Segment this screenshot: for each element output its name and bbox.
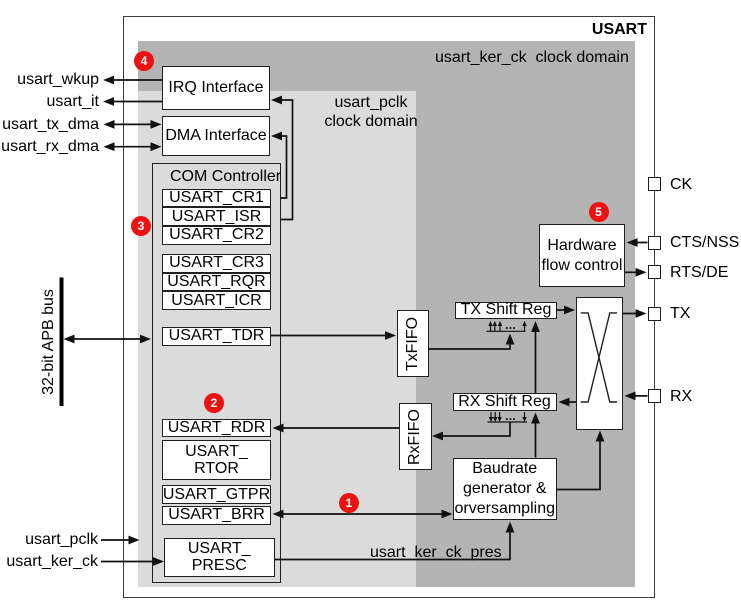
- left pin label usart_rx_dma: [0, 139, 99, 155]
- arrowhead into RTS pin: [636, 268, 647, 277]
- wire COM to IRQ feedback: [274, 100, 293, 220]
- RxFIFO block: [399, 403, 432, 470]
- TX/RX switch block: [576, 297, 623, 430]
- wire RX pin to switch: [628, 395, 648, 397]
- arrowhead into TX shift reg bottom: [531, 321, 540, 332]
- arrowhead into TxFIFO: [385, 331, 396, 340]
- arrowhead into RX shift reg bottom: [531, 413, 540, 424]
- register USART_TDR: [162, 327, 271, 346]
- register USART_RDR: [162, 419, 271, 438]
- wire DMA to usart_tx_dma: [107, 123, 158, 125]
- wire IRQ to usart_it: [106, 101, 162, 103]
- wire baudrate to RX shift reg: [535, 416, 537, 458]
- arrowhead usart_tx_dma right: [151, 120, 162, 129]
- svg-text:...: ...: [505, 317, 516, 332]
- TX shift reg parallel load arrows: [487, 323, 526, 331]
- register USART_ICR: [162, 291, 271, 310]
- pin CK: [648, 177, 662, 191]
- arrowhead APB left: [64, 335, 75, 344]
- arrowhead usart_ker_ck: [153, 557, 164, 566]
- arrowhead into TX pin: [636, 309, 647, 318]
- label usart_ker_ck clock domain: [435, 50, 629, 66]
- svg-text:...: ...: [505, 408, 516, 423]
- arrowhead usart_pclk: [129, 536, 140, 545]
- label usart_pclk clock domain: [296, 94, 446, 131]
- wire baudrate to TX shift reg: [535, 325, 537, 393]
- usart_ker_ck clock domain region: [138, 41, 635, 587]
- pin RTS/DE: [648, 265, 662, 279]
- left pin label usart_it: [0, 94, 99, 110]
- RX Shift Reg block: [453, 393, 557, 411]
- left pin label usart_pclk: [0, 532, 98, 548]
- arrowhead into switch bottom: [596, 431, 605, 442]
- 32-bit APB bus bar: [60, 278, 64, 407]
- wire usart_ker_ck input: [101, 561, 160, 563]
- 32-bit APB bus rotated label: [41, 287, 57, 397]
- Hardware flow control block: [539, 224, 625, 287]
- wire IRQ to usart_wkup: [106, 79, 162, 81]
- arrowhead RX pin into switch: [625, 392, 636, 401]
- arrowhead feedback into IRQ: [271, 96, 282, 105]
- usart_pclk clock domain region: [138, 91, 416, 588]
- TX Shift Reg block: [455, 302, 557, 320]
- register USART_RQR: [162, 273, 271, 292]
- callout circle 2: [204, 393, 224, 413]
- wire DMA to usart_rx_dma: [107, 146, 158, 148]
- wire switch to TX pin: [623, 313, 644, 315]
- Baudrate generator & orversampling block: [453, 458, 557, 520]
- USART outer block border: [123, 16, 655, 598]
- wire TxFIFO to TX shift reg load: [429, 338, 510, 349]
- callout circle 4: [134, 51, 154, 71]
- arrowhead BRR left: [273, 510, 284, 519]
- arrowhead TX shift into switch: [564, 306, 575, 315]
- left pin label usart_tx_dma: [0, 117, 99, 133]
- RX shift reg parallel unload arrows: [488, 412, 528, 422]
- register USART_ISR: [162, 207, 271, 226]
- wire TX shift reg to switch: [557, 309, 572, 311]
- wire RxFIFO to RDR: [276, 427, 399, 429]
- register USART_PRESC: [164, 538, 276, 578]
- arrowhead TxFIFO load up: [506, 334, 515, 345]
- register USART_GTPR: [162, 485, 271, 504]
- arrowhead usart_rx_dma left: [104, 142, 115, 151]
- wire RX shift reg to RxFIFO: [436, 422, 510, 436]
- pin CTS/NSS: [648, 236, 662, 250]
- arrowhead usart_wkup: [103, 76, 114, 85]
- wire switch to RX shift reg: [561, 401, 576, 403]
- arrowhead feedback into DMA: [271, 132, 282, 141]
- wire CTS pin to hardware flow control: [629, 242, 648, 244]
- wire BRR to baudrate generator: [276, 513, 449, 515]
- DMA Interface block: [162, 116, 270, 156]
- arrowhead APB right: [140, 335, 151, 344]
- wire PRESC to baudrate generator usart_ker_ck_pres: [275, 525, 510, 560]
- arrowhead into baudrate left: [442, 510, 453, 519]
- arrowhead usart_tx_dma left: [104, 120, 115, 129]
- switch cross glyph: [581, 313, 617, 402]
- arrowhead into RxFIFO: [432, 432, 443, 441]
- label usart_ker_ck_pres: [370, 545, 502, 561]
- arrowhead into RDR: [273, 424, 284, 433]
- wire hardware flow control to RTS pin: [625, 271, 643, 273]
- TxFIFO block: [397, 310, 430, 377]
- register USART_CR1: [162, 189, 271, 208]
- pin RX: [648, 389, 662, 403]
- arrowhead into RX shift reg right: [559, 398, 570, 407]
- arrowhead into hardware flow control: [627, 238, 638, 247]
- callout circle 5: [589, 202, 609, 222]
- left pin label usart_wkup: [0, 72, 99, 88]
- IRQ Interface block: [162, 66, 270, 110]
- register USART_BRR: [162, 506, 271, 526]
- wire usart_pclk input: [101, 539, 135, 541]
- USART title: [560, 22, 647, 38]
- wire TDR to TxFIFO: [271, 335, 393, 337]
- callout circle 1: [339, 493, 359, 513]
- register USART_CR3: [162, 254, 271, 273]
- arrowhead ker_ck_pres up into baudrate: [506, 522, 515, 533]
- wire baudrate generator to switch: [557, 434, 601, 490]
- register USART_CR2: [162, 226, 271, 245]
- wire APB bus to COM: [66, 338, 148, 340]
- arrowhead usart_it: [103, 97, 114, 106]
- COM Controller block: [152, 163, 281, 584]
- callout circle 3: [131, 216, 151, 236]
- wire COM to DMA feedback: [274, 136, 287, 198]
- register USART_RTOR: [162, 440, 271, 480]
- arrowhead usart_rx_dma right: [151, 142, 162, 151]
- left pin label usart_ker_ck: [0, 554, 98, 570]
- pin TX: [648, 307, 662, 321]
